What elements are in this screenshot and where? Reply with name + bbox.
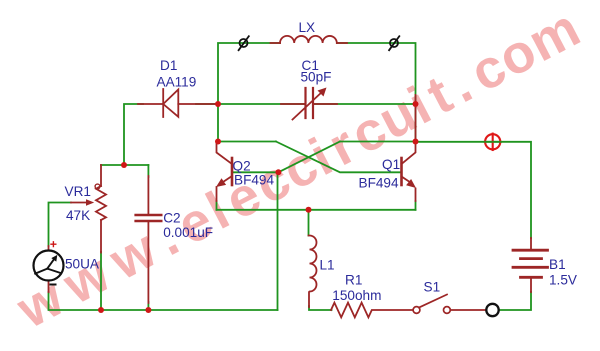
svg-text:50pF: 50pF [301, 70, 332, 85]
node D1-left vertical [215, 101, 221, 107]
svg-text:C2: C2 [163, 211, 180, 226]
node VR1 rail tee [121, 162, 127, 168]
inductor L1 [309, 236, 317, 308]
wire Q2 base [232, 171, 278, 173]
node Q2 base junction [275, 169, 281, 175]
svg-text:BF494: BF494 [234, 172, 274, 187]
node C1-right vertical [413, 101, 419, 107]
svg-text:VR1: VR1 [65, 184, 91, 199]
svg-text:LX: LX [299, 20, 316, 35]
wire top rail with left and right verticals [218, 43, 416, 142]
inductor LX [271, 36, 348, 43]
svg-text:0.001uF: 0.001uF [163, 225, 213, 240]
variable capacitor C1 [281, 88, 416, 142]
wire emitter rail [217, 209, 416, 211]
svg-text:50UA: 50UA [65, 257, 100, 272]
potentiometer VR1 [71, 165, 106, 253]
svg-text:47K: 47K [66, 208, 90, 223]
wire S1 to battery bottom [499, 292, 531, 310]
switch S1 [413, 295, 486, 314]
node emitter rail / L1 [306, 207, 312, 213]
svg-text:R1: R1 [345, 273, 362, 288]
transistor Q2 [217, 143, 233, 201]
diode D1 [138, 89, 216, 117]
no-connect symbol left [239, 36, 249, 50]
wire cross-coupling left horizontal [218, 141, 276, 143]
capacitor C2 [136, 176, 162, 303]
svg-text:B1: B1 [549, 257, 566, 272]
wire L1 bottom to R1 [309, 306, 332, 310]
meter M1 50UA [34, 242, 64, 292]
wire base drop vertical [277, 172, 279, 310]
wire VR1 bottom lead [100, 252, 102, 310]
svg-text:BF494: BF494 [359, 175, 399, 190]
svg-text:L1: L1 [320, 258, 335, 273]
wire Q2 emitter drop [216, 201, 218, 210]
wire L1 top lead [308, 210, 310, 236]
svg-text:150ohm: 150ohm [332, 288, 381, 303]
wire wiper to meter [49, 203, 72, 247]
wire battery top to plus terminal [416, 142, 532, 238]
node C2 bottom [145, 307, 151, 313]
no-connect symbol right [389, 36, 399, 50]
svg-text:Q1: Q1 [382, 157, 400, 172]
wire cross diagonal B [278, 142, 340, 173]
svg-text:AA119: AA119 [157, 75, 197, 90]
node Q1 collector [413, 139, 419, 145]
svg-text:S1: S1 [424, 280, 441, 295]
battery B1 [513, 238, 548, 292]
node VR1 bottom [98, 307, 104, 313]
terminal plus [485, 134, 500, 150]
node Q2 collector [215, 139, 221, 145]
wire C1/D1 row [124, 104, 416, 165]
transistor Q1 [402, 143, 416, 201]
wire cross diagonal A [276, 142, 402, 173]
wire Q1 emitter drop [415, 201, 417, 210]
svg-text:D1: D1 [160, 58, 177, 73]
resistor R1 [331, 303, 413, 318]
wire cross right horizontal [340, 141, 416, 143]
junction node dots [98, 101, 419, 313]
wire meter to bottom rail [49, 292, 278, 310]
svg-text:Q2: Q2 [233, 159, 251, 174]
terminal minus (black circle) [486, 304, 498, 316]
wire C2 top lead [147, 165, 149, 177]
wire C2 bottom lead [147, 302, 149, 310]
svg-text:1.5V: 1.5V [549, 272, 577, 287]
wire VR1/C2 top rail [101, 164, 148, 166]
